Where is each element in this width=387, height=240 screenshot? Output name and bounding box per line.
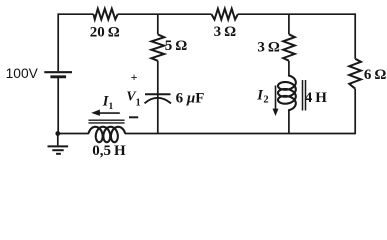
svg-text:6 Ω: 6 Ω xyxy=(364,67,387,83)
svg-text:5 Ω: 5 Ω xyxy=(165,38,188,54)
svg-text:V1: V1 xyxy=(126,89,140,109)
svg-text:I2: I2 xyxy=(256,88,268,106)
svg-text:100V: 100V xyxy=(6,66,39,81)
svg-text:20 Ω: 20 Ω xyxy=(90,24,120,40)
svg-text:3 Ω: 3 Ω xyxy=(214,24,237,40)
svg-text:I1: I1 xyxy=(102,94,114,112)
svg-text:0,5 H: 0,5 H xyxy=(92,143,126,159)
svg-text:+: + xyxy=(131,70,138,84)
svg-text:4 H: 4 H xyxy=(305,90,328,106)
svg-text:6 μF: 6 μF xyxy=(176,91,205,107)
svg-text:3 Ω: 3 Ω xyxy=(257,40,280,56)
